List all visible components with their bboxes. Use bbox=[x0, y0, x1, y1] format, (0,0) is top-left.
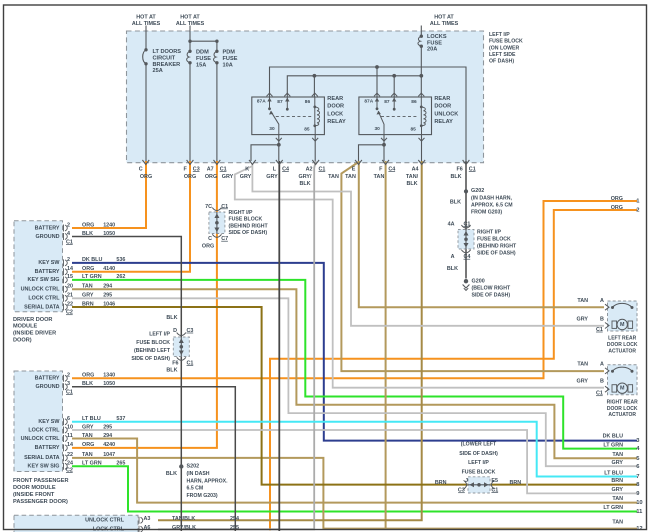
svg-text:DDM: DDM bbox=[196, 50, 209, 56]
svg-text:2: 2 bbox=[67, 373, 70, 379]
svg-text:A7: A7 bbox=[207, 166, 214, 172]
svg-text:6: 6 bbox=[67, 416, 70, 422]
svg-text:(IN DASH: (IN DASH bbox=[187, 471, 210, 477]
svg-text:A6: A6 bbox=[144, 525, 151, 531]
svg-text:REAR: REAR bbox=[327, 96, 343, 102]
svg-text:GROUND: GROUND bbox=[36, 384, 60, 390]
svg-text:RIGHT I/P: RIGHT I/P bbox=[229, 210, 253, 216]
svg-text:15A: 15A bbox=[196, 62, 206, 68]
svg-text:UNLOCK CTRL: UNLOCK CTRL bbox=[85, 518, 125, 524]
svg-text:TAN: TAN bbox=[82, 433, 93, 439]
svg-text:294: 294 bbox=[103, 433, 112, 439]
svg-text:LT BLU: LT BLU bbox=[604, 470, 623, 476]
svg-text:BLK: BLK bbox=[450, 174, 461, 180]
svg-text:C: C bbox=[208, 236, 212, 242]
svg-text:1046: 1046 bbox=[103, 301, 115, 307]
svg-text:1240: 1240 bbox=[103, 222, 115, 228]
svg-text:BLK: BLK bbox=[82, 231, 93, 237]
svg-text:A: A bbox=[451, 254, 455, 260]
svg-text:537: 537 bbox=[116, 416, 125, 422]
svg-text:DK BLU: DK BLU bbox=[82, 257, 102, 263]
svg-text:ALL TIMES: ALL TIMES bbox=[430, 21, 459, 27]
svg-text:SIDE OF DASH): SIDE OF DASH) bbox=[477, 250, 516, 256]
svg-text:ORG: ORG bbox=[82, 442, 94, 448]
svg-text:A2: A2 bbox=[306, 166, 313, 172]
svg-text:BLK: BLK bbox=[450, 200, 461, 206]
svg-text:85: 85 bbox=[411, 126, 417, 132]
svg-text:LEFT REAR: LEFT REAR bbox=[608, 336, 636, 342]
svg-text:A: A bbox=[600, 298, 604, 304]
svg-text:(INSIDE FRONT: (INSIDE FRONT bbox=[13, 492, 55, 498]
svg-text:FUSE: FUSE bbox=[427, 40, 442, 46]
svg-text:FROM G203): FROM G203) bbox=[471, 209, 502, 215]
svg-text:CIRCUIT: CIRCUIT bbox=[153, 55, 176, 61]
svg-text:RELAY: RELAY bbox=[434, 119, 453, 125]
svg-text:7: 7 bbox=[636, 474, 639, 480]
svg-text:FUSE: FUSE bbox=[196, 56, 211, 62]
svg-text:F6: F6 bbox=[172, 361, 178, 367]
svg-text:ACTUATOR: ACTUATOR bbox=[608, 412, 636, 418]
svg-text:LOCK CTRL: LOCK CTRL bbox=[28, 427, 60, 433]
svg-text:7C: 7C bbox=[205, 204, 212, 210]
svg-text:APPROX. 6.5 CM: APPROX. 6.5 CM bbox=[471, 202, 513, 208]
svg-text:KEY SW: KEY SW bbox=[38, 419, 60, 425]
svg-text:BATTERY: BATTERY bbox=[35, 269, 60, 275]
svg-text:ACTUATOR: ACTUATOR bbox=[608, 348, 636, 354]
svg-text:GRY: GRY bbox=[612, 460, 624, 466]
svg-text:BLK: BLK bbox=[166, 471, 177, 477]
svg-text:4140: 4140 bbox=[103, 266, 115, 272]
svg-text:FUSE BLOCK: FUSE BLOCK bbox=[477, 236, 511, 242]
svg-text:LEFT I/P: LEFT I/P bbox=[489, 32, 510, 38]
svg-text:LOCK: LOCK bbox=[327, 111, 343, 117]
svg-text:KEY SW SIG: KEY SW SIG bbox=[28, 277, 60, 283]
svg-text:BLK: BLK bbox=[166, 368, 177, 374]
svg-text:GRY: GRY bbox=[612, 487, 624, 493]
svg-text:3: 3 bbox=[67, 381, 70, 387]
svg-text:20: 20 bbox=[67, 284, 73, 290]
svg-text:87: 87 bbox=[277, 99, 283, 105]
svg-text:11: 11 bbox=[636, 509, 643, 515]
svg-text:OF DASH): OF DASH) bbox=[489, 59, 514, 65]
svg-text:UNLOCK CTRL: UNLOCK CTRL bbox=[21, 436, 61, 442]
svg-text:TAN: TAN bbox=[612, 452, 623, 458]
svg-text:BLK: BLK bbox=[82, 381, 93, 387]
svg-text:30: 30 bbox=[269, 126, 275, 132]
svg-text:85: 85 bbox=[304, 126, 310, 132]
svg-text:BRN: BRN bbox=[611, 478, 623, 484]
svg-text:G202: G202 bbox=[471, 188, 484, 194]
svg-text:TAN/BLK: TAN/BLK bbox=[172, 516, 195, 522]
svg-text:BLK: BLK bbox=[406, 181, 417, 187]
svg-text:87A: 87A bbox=[257, 99, 266, 105]
svg-text:RIGHT I/P: RIGHT I/P bbox=[477, 229, 501, 235]
svg-text:LEFT I/P: LEFT I/P bbox=[149, 332, 170, 338]
svg-text:BATTERY: BATTERY bbox=[35, 445, 60, 451]
svg-text:1050: 1050 bbox=[103, 231, 115, 237]
svg-text:GRY/: GRY/ bbox=[299, 174, 312, 180]
svg-text:254: 254 bbox=[230, 516, 239, 522]
svg-text:LT GRN: LT GRN bbox=[603, 443, 623, 449]
svg-text:DK BLU: DK BLU bbox=[603, 434, 623, 440]
svg-text:SIDE OF DASH): SIDE OF DASH) bbox=[131, 356, 170, 362]
svg-text:LOCKS: LOCKS bbox=[427, 34, 447, 40]
svg-text:21: 21 bbox=[67, 293, 73, 299]
svg-text:ORG: ORG bbox=[202, 244, 214, 250]
svg-text:K: K bbox=[245, 166, 249, 172]
svg-text:(ON LOWER: (ON LOWER bbox=[489, 45, 520, 51]
svg-text:ORG: ORG bbox=[82, 266, 94, 272]
svg-text:HOT AT: HOT AT bbox=[180, 14, 200, 20]
svg-text:HOT AT: HOT AT bbox=[136, 14, 156, 20]
svg-text:10: 10 bbox=[636, 500, 642, 506]
svg-text:2: 2 bbox=[67, 222, 70, 228]
svg-text:10: 10 bbox=[67, 424, 73, 430]
svg-text:10A: 10A bbox=[223, 62, 233, 68]
svg-text:UNLOCK: UNLOCK bbox=[434, 111, 458, 117]
svg-text:22: 22 bbox=[67, 301, 73, 307]
svg-text:GRY/BLK: GRY/BLK bbox=[172, 525, 196, 531]
svg-text:PDM: PDM bbox=[223, 50, 236, 56]
svg-text:GRY: GRY bbox=[266, 174, 278, 180]
svg-text:BLK: BLK bbox=[166, 315, 177, 321]
svg-text:BATTERY: BATTERY bbox=[35, 225, 60, 231]
svg-text:TAN: TAN bbox=[345, 174, 356, 180]
svg-text:HOT AT: HOT AT bbox=[434, 14, 454, 20]
svg-text:DOOR: DOOR bbox=[327, 104, 344, 110]
svg-text:BRN: BRN bbox=[510, 480, 522, 486]
svg-text:SIDE OF DASH): SIDE OF DASH) bbox=[472, 292, 511, 298]
svg-text:87: 87 bbox=[384, 99, 390, 105]
svg-text:GRY: GRY bbox=[82, 293, 94, 299]
svg-text:(LOWER LEFT: (LOWER LEFT bbox=[461, 441, 497, 447]
svg-text:M: M bbox=[620, 386, 625, 392]
svg-text:(INSIDE DRIVER: (INSIDE DRIVER bbox=[13, 331, 56, 337]
svg-text:G200: G200 bbox=[472, 278, 485, 284]
svg-text:LT GRN: LT GRN bbox=[82, 461, 102, 467]
svg-text:DOOR: DOOR bbox=[434, 104, 451, 110]
svg-text:RIGHT REAR: RIGHT REAR bbox=[607, 399, 639, 405]
svg-text:(BEHIND RIGHT: (BEHIND RIGHT bbox=[477, 243, 517, 249]
svg-text:FUSE: FUSE bbox=[223, 56, 238, 62]
svg-text:GRY: GRY bbox=[82, 424, 94, 430]
svg-text:295: 295 bbox=[103, 424, 112, 430]
svg-text:C: C bbox=[139, 166, 143, 172]
svg-text:ORG: ORG bbox=[82, 373, 94, 379]
svg-text:B: B bbox=[600, 317, 604, 323]
svg-text:20A: 20A bbox=[427, 47, 437, 53]
svg-text:ORG: ORG bbox=[140, 174, 152, 180]
svg-text:TAN: TAN bbox=[328, 174, 339, 180]
svg-text:30: 30 bbox=[375, 126, 381, 132]
svg-text:14: 14 bbox=[67, 442, 73, 448]
svg-text:M: M bbox=[620, 322, 625, 328]
svg-text:4: 4 bbox=[67, 231, 70, 237]
svg-text:1340: 1340 bbox=[103, 373, 115, 379]
svg-text:TAN: TAN bbox=[577, 362, 588, 368]
svg-text:2: 2 bbox=[636, 208, 639, 214]
svg-text:E: E bbox=[352, 166, 356, 172]
svg-text:RELAY: RELAY bbox=[327, 119, 346, 125]
svg-text:SIDE OF DASH): SIDE OF DASH) bbox=[459, 451, 498, 457]
svg-text:SERIAL DATA: SERIAL DATA bbox=[24, 304, 59, 310]
svg-text:ORG: ORG bbox=[184, 174, 196, 180]
svg-text:REAR: REAR bbox=[434, 96, 450, 102]
svg-text:TAN: TAN bbox=[612, 496, 623, 502]
svg-text:ORG: ORG bbox=[611, 196, 623, 202]
svg-text:GRY: GRY bbox=[222, 174, 234, 180]
svg-text:LOCK CTRL: LOCK CTRL bbox=[28, 296, 60, 302]
svg-text:LT DOORS: LT DOORS bbox=[153, 49, 182, 55]
svg-text:TAN: TAN bbox=[577, 298, 588, 304]
svg-text:A4: A4 bbox=[412, 166, 419, 172]
svg-text:B: B bbox=[600, 379, 604, 385]
svg-text:LEFT I/P: LEFT I/P bbox=[468, 460, 489, 466]
svg-text:F6: F6 bbox=[457, 166, 463, 172]
svg-text:A: A bbox=[600, 362, 604, 368]
svg-text:ORG: ORG bbox=[205, 174, 217, 180]
svg-text:BLK: BLK bbox=[299, 181, 310, 187]
svg-text:KEY SW: KEY SW bbox=[38, 260, 60, 266]
svg-text:DOOR LOCK: DOOR LOCK bbox=[607, 406, 638, 412]
svg-text:BLK: BLK bbox=[447, 266, 458, 272]
svg-text:4A: 4A bbox=[448, 222, 455, 228]
svg-text:4240: 4240 bbox=[103, 442, 115, 448]
svg-text:GRY: GRY bbox=[577, 317, 589, 323]
svg-text:BATTERY: BATTERY bbox=[35, 376, 60, 382]
svg-text:(BEHIND LEFT: (BEHIND LEFT bbox=[134, 348, 171, 354]
svg-text:LT GRN: LT GRN bbox=[82, 274, 102, 280]
svg-text:E5: E5 bbox=[491, 478, 498, 484]
svg-text:FUSE BLOCK: FUSE BLOCK bbox=[462, 470, 496, 476]
svg-text:294: 294 bbox=[103, 284, 112, 290]
svg-text:HARN, APPROX.: HARN, APPROX. bbox=[187, 478, 229, 484]
svg-text:86: 86 bbox=[411, 99, 417, 105]
svg-text:2: 2 bbox=[67, 257, 70, 263]
svg-text:LT BLU: LT BLU bbox=[82, 416, 101, 422]
svg-text:GRY: GRY bbox=[240, 174, 252, 180]
svg-text:FROM G203): FROM G203) bbox=[187, 493, 218, 499]
svg-text:86: 86 bbox=[305, 99, 311, 105]
svg-text:J: J bbox=[465, 478, 468, 484]
svg-text:(IN DASH HARN,: (IN DASH HARN, bbox=[471, 195, 512, 201]
svg-text:6.5 CM: 6.5 CM bbox=[187, 486, 204, 492]
svg-text:1047: 1047 bbox=[103, 452, 115, 458]
svg-text:BREAKER: BREAKER bbox=[153, 62, 181, 68]
svg-text:TAN: TAN bbox=[82, 452, 93, 458]
svg-text:SERIAL DATA: SERIAL DATA bbox=[24, 455, 59, 461]
svg-text:14: 14 bbox=[67, 266, 73, 272]
svg-text:FUSE BLOCK: FUSE BLOCK bbox=[136, 340, 170, 346]
svg-text:GROUND: GROUND bbox=[36, 234, 60, 240]
svg-text:DRIVER DOOR: DRIVER DOOR bbox=[13, 317, 52, 323]
svg-text:536: 536 bbox=[116, 257, 125, 263]
svg-text:KEY SW SIG: KEY SW SIG bbox=[28, 464, 60, 470]
svg-text:ORG: ORG bbox=[82, 222, 94, 228]
svg-text:BRN: BRN bbox=[82, 301, 94, 307]
svg-text:MODULE: MODULE bbox=[13, 324, 38, 330]
svg-text:S202: S202 bbox=[187, 463, 200, 469]
svg-text:DOOR): DOOR) bbox=[13, 338, 32, 344]
svg-text:DOOR LOCK: DOOR LOCK bbox=[607, 342, 638, 348]
svg-text:TAN: TAN bbox=[374, 174, 385, 180]
svg-text:UNLOCK CTRL: UNLOCK CTRL bbox=[21, 287, 61, 293]
svg-text:25A: 25A bbox=[153, 68, 163, 74]
svg-text:11: 11 bbox=[67, 433, 73, 439]
svg-text:TAN: TAN bbox=[82, 284, 93, 290]
svg-text:FUSE BLOCK: FUSE BLOCK bbox=[229, 217, 263, 223]
svg-text:PASSENGER DOOR): PASSENGER DOOR) bbox=[13, 499, 68, 505]
svg-text:(BEHIND RIGHT: (BEHIND RIGHT bbox=[229, 223, 269, 229]
svg-text:255: 255 bbox=[230, 525, 239, 531]
svg-text:GRY: GRY bbox=[577, 379, 589, 385]
svg-text:15: 15 bbox=[67, 274, 73, 280]
svg-text:LT GRN: LT GRN bbox=[603, 505, 623, 511]
svg-text:262: 262 bbox=[116, 274, 125, 280]
svg-text:LEFT SIDE: LEFT SIDE bbox=[489, 52, 516, 58]
svg-text:SIDE OF DASH): SIDE OF DASH) bbox=[229, 230, 268, 236]
svg-text:TAN/: TAN/ bbox=[406, 174, 419, 180]
svg-text:TAN: TAN bbox=[612, 520, 623, 526]
svg-text:24: 24 bbox=[67, 461, 73, 467]
svg-text:FRONT PASSENGER: FRONT PASSENGER bbox=[13, 478, 69, 484]
svg-text:87A: 87A bbox=[364, 99, 373, 105]
svg-text:(BELOW RIGHT: (BELOW RIGHT bbox=[472, 285, 511, 291]
svg-text:A3: A3 bbox=[144, 516, 151, 522]
svg-text:265: 265 bbox=[116, 461, 125, 467]
svg-text:22: 22 bbox=[67, 452, 73, 458]
svg-text:BRN: BRN bbox=[435, 480, 447, 486]
svg-text:DOOR MODULE: DOOR MODULE bbox=[13, 485, 56, 491]
svg-text:FUSE BLOCK: FUSE BLOCK bbox=[489, 39, 523, 45]
svg-text:1050: 1050 bbox=[103, 381, 115, 387]
svg-text:295: 295 bbox=[103, 293, 112, 299]
svg-text:ORG: ORG bbox=[611, 205, 623, 211]
